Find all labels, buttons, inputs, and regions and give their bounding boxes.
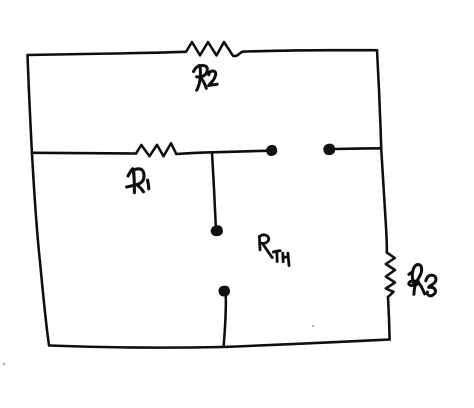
resistor R1: [136, 143, 176, 156]
wire right edge upper: [377, 50, 381, 148]
junction node dot A (terminal a): [267, 145, 277, 155]
wire middle vertical branch: [212, 153, 216, 227]
terminal dot lower (R_TH terminal): [219, 286, 229, 296]
label R1: [127, 169, 149, 193]
label R_TH: [259, 235, 289, 266]
wire top edge left segment: [28, 52, 187, 55]
wire lower vertical branch: [224, 296, 226, 347]
wire middle horizontal left segment: [32, 152, 136, 155]
label R2: [194, 65, 218, 90]
wire right edge lower: [388, 297, 390, 340]
wire middle horizontal right segment: [176, 151, 266, 154]
resistor R3: [386, 253, 395, 297]
stray ink speck: [312, 325, 314, 327]
wire right edge middle: [381, 148, 387, 252]
label R3: [409, 264, 436, 295]
wire bottom edge: [49, 340, 390, 348]
stray ink speck left margin: [3, 363, 5, 365]
wire left edge: [28, 55, 50, 345]
wire from node B to right edge: [334, 147, 380, 150]
node dot B (terminal b): [324, 144, 335, 155]
terminal dot upper (R_TH terminal): [211, 226, 222, 236]
resistor R2: [186, 42, 243, 56]
wire top edge right segment: [243, 50, 377, 51]
